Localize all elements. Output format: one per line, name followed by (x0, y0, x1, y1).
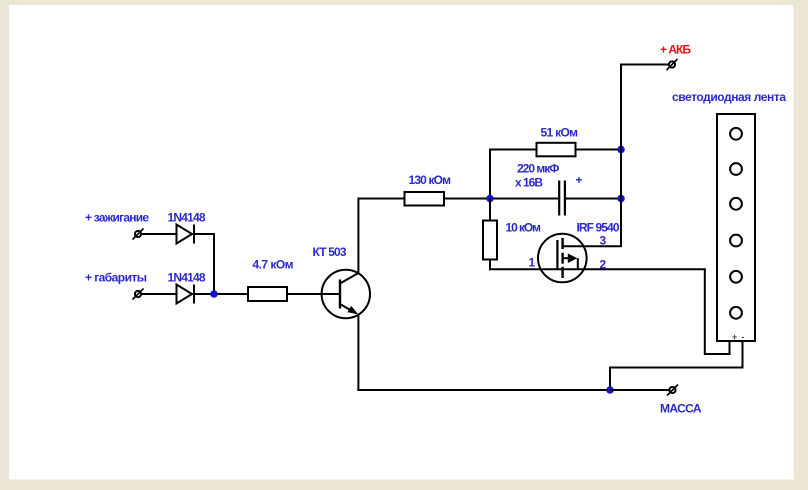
svg-text:IRF 9540: IRF 9540 (577, 221, 620, 235)
LED strip hole 2 (730, 163, 742, 175)
svg-text:10 кОм: 10 кОм (506, 221, 542, 235)
svg-text:МАССА: МАССА (660, 402, 702, 416)
wire minus down to node F (609, 367, 611, 391)
svg-text:1N4148: 1N4148 (168, 211, 206, 225)
svg-text:+ АКБ: + АКБ (660, 43, 691, 57)
wire emitter bottom to node F (357, 389, 610, 391)
svg-text:51 кОм: 51 кОм (541, 126, 579, 140)
wire node F to МАССА terminal (610, 389, 669, 391)
mosfet U1 IRF 9540 body (538, 234, 621, 283)
wire corner down to node A (213, 233, 215, 294)
svg-text:+: + (576, 173, 583, 187)
diode VD1 1N4148 (177, 225, 195, 244)
svg-text:светодиодная лента: светодиодная лента (672, 90, 786, 104)
resistor R1 4.7 кОм (248, 287, 287, 301)
wire node B up to R3 branch (489, 149, 491, 200)
resistor R4 10 кОм (483, 221, 497, 260)
wire +АКБ vertical (620, 65, 622, 248)
svg-text:+ -: + - (732, 332, 745, 342)
wire VD2 to resistor R1 (194, 293, 248, 295)
terminal + АКБ (667, 59, 678, 70)
capacitor C1 220 мкФ x 16В (559, 181, 565, 216)
diode VD2 1N4148 (177, 285, 195, 304)
LED strip hole 5 (730, 271, 742, 283)
resistor R2 130 кОм (405, 192, 445, 206)
svg-text:1N4148: 1N4148 (168, 271, 206, 285)
svg-text:х 16В: х 16В (515, 176, 543, 190)
svg-text:220 мкФ: 220 мкФ (517, 162, 560, 176)
wire emitter down (357, 314, 359, 392)
node A junction dot (210, 290, 218, 298)
terminal + габариты (133, 289, 144, 300)
wire C1 to node E (566, 198, 621, 200)
wire collector up (357, 200, 359, 275)
node D junction dot (617, 146, 625, 154)
wire terminal2 to diode VD2 (142, 293, 177, 295)
wire pin2 down (704, 269, 706, 355)
svg-text:+ зажигание: + зажигание (85, 211, 149, 225)
svg-text:3: 3 (600, 234, 607, 248)
LED strip body (717, 114, 755, 341)
wire R2 to node B (444, 198, 490, 200)
wire VD1 to corner (194, 233, 215, 235)
svg-text:130 кОм: 130 кОм (409, 173, 452, 187)
wire minus of strip down (742, 341, 744, 369)
resistor R3 51 кОм (537, 143, 576, 157)
mosfet U1 substrate arrow (568, 253, 577, 263)
svg-text:+ габариты: + габариты (85, 271, 147, 285)
wire minus horizontal to left (609, 367, 744, 369)
terminal МАССА (667, 385, 678, 396)
transistor Q1 КТ 503 (322, 270, 370, 318)
wire up-branch corner to R3 (489, 149, 537, 151)
svg-text:2: 2 (600, 258, 607, 272)
node E junction dot (617, 195, 625, 203)
wire collector corner to R2 (357, 198, 404, 200)
transistor Q1 emitter arrow (347, 306, 358, 315)
wire R3 to node D (576, 149, 622, 151)
wire up to LED strip plus (729, 340, 731, 355)
svg-text:1: 1 (529, 256, 536, 270)
svg-text:КТ 503: КТ 503 (313, 245, 347, 259)
wire R1 to base of Q1 (287, 293, 340, 295)
wire gate line to mosfet and pin 2 side (489, 268, 706, 270)
wire pin2 bottom horizontal (705, 353, 731, 355)
LED strip hole 4 (730, 235, 742, 247)
wire terminal1 to diode VD1 (142, 233, 177, 235)
node F junction dot (606, 386, 614, 394)
LED strip hole 6 (730, 307, 742, 319)
svg-text:4.7 кОм: 4.7 кОм (253, 258, 294, 272)
LED strip hole 3 (730, 198, 742, 210)
terminal + зажигание (133, 229, 144, 240)
wire R4 bottom to gate line (489, 260, 491, 271)
LED strip hole 1 (730, 128, 742, 140)
wire node B down to R4 (489, 199, 491, 222)
wire +АКБ horizontal (620, 64, 669, 66)
node B junction dot (486, 195, 494, 203)
wire node B to capacitor C1 (490, 198, 558, 200)
